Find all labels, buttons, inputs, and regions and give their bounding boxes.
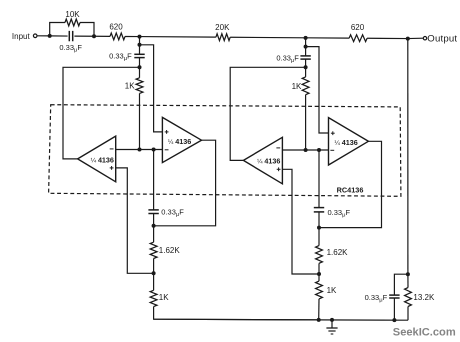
node J junction [304, 148, 308, 152]
wire input terminal to node A [37, 35, 49, 37]
wire node L to resistor R7 [153, 226, 155, 242]
label U1c 1/4 4136 [257, 157, 280, 166]
node C junction [138, 35, 142, 39]
wire U1c inverting input to U1d inverting input [282, 149, 328, 151]
svg-text:1.62K: 1.62K [327, 248, 349, 257]
wire node C down to capacitor C2 [139, 37, 141, 55]
resistor R4 620 [349, 35, 367, 42]
label 1K R6 [292, 82, 302, 91]
label 1.62K R7 [159, 246, 181, 255]
resistor R8 1K [150, 290, 157, 306]
resistor R10 1K [316, 281, 323, 299]
svg-text:1.62K: 1.62K [159, 246, 181, 255]
ground symbol [326, 328, 337, 334]
U1a inverting input mark [110, 148, 114, 150]
label 20K [215, 23, 230, 32]
wire node D to op-amp U1b noninverting input [140, 45, 163, 132]
label Input [12, 32, 31, 41]
wire resistor R5 to node F [139, 93, 141, 149]
node N junction [317, 226, 321, 230]
label 1.62K R9 [327, 248, 349, 257]
label 1K R5 [125, 82, 135, 91]
wire U1d output down to node N [319, 141, 382, 227]
U1c noninverting input mark [277, 167, 281, 171]
wire node G down to capacitor C3 [305, 38, 307, 56]
svg-text:1K: 1K [125, 82, 135, 91]
op-amp U1b [162, 117, 201, 162]
U1d inverting input mark [330, 149, 334, 151]
wire U1a noninverting input feedback [116, 168, 154, 273]
U1b inverting input mark [165, 149, 169, 151]
label 10K [65, 10, 80, 19]
svg-text:13.2K: 13.2K [413, 293, 435, 302]
label 0.33uF C4 [161, 207, 184, 218]
wire U1c noninverting input feedback [282, 169, 319, 274]
node F junction [138, 148, 142, 152]
wire resistor R4 to output node [367, 37, 408, 39]
svg-text:¼ 4136: ¼ 4136 [334, 138, 357, 147]
output terminal [423, 37, 426, 40]
wire U1b output down to node L [154, 140, 216, 226]
wire node B to resistor R2 [94, 35, 110, 37]
wire node C to resistor R3 [140, 36, 216, 39]
resistor R7 1.62K [150, 242, 157, 258]
node G junction [304, 36, 308, 40]
resistor R9 1.62K [316, 246, 323, 264]
U1a noninverting input mark [110, 166, 114, 170]
node S junction [406, 272, 410, 276]
node A junction [48, 34, 52, 38]
svg-text:1K: 1K [159, 293, 169, 302]
U1c inverting input mark [276, 147, 280, 149]
svg-text:¼ 4136: ¼ 4136 [257, 157, 280, 166]
svg-text:¼ 4136: ¼ 4136 [91, 155, 114, 164]
label 620 R4 [351, 23, 365, 32]
wire node M down to capacitor C5 [318, 150, 320, 208]
resistor R1 10K [65, 19, 80, 26]
label 0.33uF C1 [59, 43, 82, 54]
svg-text:Output: Output [427, 34, 457, 45]
wire node P to resistor R8 [153, 273, 155, 290]
label 0.33uF C6 [365, 293, 388, 304]
label U1a 1/4 4136 [91, 155, 114, 164]
resistor R6 1K [302, 77, 309, 95]
label RC4136 [337, 186, 364, 195]
capacitor C5 0.33uF [314, 208, 324, 212]
node E junction [138, 65, 142, 69]
node M junction [317, 148, 321, 152]
label Output [427, 34, 457, 45]
capacitor C6 0.33uF [389, 295, 399, 298]
wire resistor R3 to node G [230, 36, 305, 39]
resistor R5 1K [136, 78, 143, 94]
node L junction [152, 224, 156, 228]
node H junction [304, 65, 308, 69]
wire node H to resistor R6 [305, 67, 307, 77]
wire resistor R7 to node P [153, 259, 155, 274]
wire node K down to capacitor C4 [153, 150, 155, 210]
wire node G2 to op-amp U1d noninverting input [306, 47, 329, 133]
node ground-rail C6 junction [392, 318, 396, 322]
wire resistor R9 to node Q [318, 263, 320, 274]
capacitor C4 0.33uF [148, 210, 158, 214]
wire node S to resistor R11 [407, 274, 409, 287]
capacitor C1 0.33uF input [69, 31, 72, 41]
wire node E to resistor R5 [139, 67, 141, 78]
label 0.33uF C3 [276, 53, 299, 64]
wire node Q to resistor R10 [318, 274, 320, 281]
wire node A to capacitor C1 [50, 35, 68, 37]
svg-text:20K: 20K [215, 23, 230, 32]
resistor R3 20K [216, 34, 230, 41]
node B junction [92, 34, 96, 38]
node ground-rail R10 junction [317, 318, 321, 322]
svg-text:Input: Input [12, 32, 31, 41]
svg-text:620: 620 [351, 23, 365, 32]
svg-text:SeekIC.com: SeekIC.com [393, 327, 456, 339]
ground rail wire [154, 319, 408, 320]
label U1d 1/4 4136 [334, 138, 357, 147]
resistor R2 620 [110, 33, 125, 40]
wire output node down to node S [407, 39, 409, 275]
label 13.2K R11 [413, 293, 435, 302]
wire capacitor C1 to node B [74, 35, 94, 37]
op-amp U1d [329, 118, 369, 165]
wire node E to op-amp U1a output [63, 67, 140, 159]
wire node G to resistor R4 [306, 37, 350, 39]
wire output node to output terminal [408, 37, 423, 39]
svg-text:0.33μF: 0.33μF [276, 53, 299, 64]
label 0.33uF C5 [328, 208, 351, 219]
svg-text:1K: 1K [327, 286, 337, 295]
wire 10K branch down to node B [80, 23, 94, 37]
wire resistor R8 to ground rail [154, 307, 319, 320]
U1b noninverting input mark [165, 130, 169, 134]
svg-text:¼ 4136: ¼ 4136 [168, 137, 191, 146]
svg-text:0.33μF: 0.33μF [59, 43, 82, 54]
wire node S to capacitor C6 [394, 274, 408, 295]
input terminal [33, 34, 37, 38]
op-amp U1a [78, 136, 116, 182]
wire capacitor C6 to ground rail [393, 298, 395, 320]
wire capacitor C4 to node L [153, 214, 155, 226]
svg-text:RC4136: RC4136 [337, 186, 364, 195]
capacitor C3 0.33uF [300, 56, 310, 59]
watermark SeekIC.com [393, 327, 456, 339]
label 1K R8 [159, 293, 169, 302]
wire U1a inverting input to U1b inverting input [116, 149, 163, 151]
wire resistor R6 to node J [305, 95, 307, 150]
svg-text:1K: 1K [292, 82, 302, 91]
wire node H to op-amp U1c output [230, 67, 305, 160]
output node junction [406, 37, 410, 41]
wire capacitor C2 to node E [139, 58, 141, 68]
wire resistor R2 to node C [125, 35, 140, 37]
wire resistor R10 to ground rail [318, 299, 320, 320]
node D junction [138, 43, 142, 47]
label 1K R10 [327, 286, 337, 295]
ground symbol stub [331, 320, 333, 328]
label 0.33uF C2 [109, 52, 132, 63]
op-amp U1c [243, 137, 282, 184]
svg-text:620: 620 [109, 22, 123, 31]
wire capacitor C3 to node H [305, 59, 307, 67]
node ground stub junction [330, 318, 334, 322]
wire node N to resistor R9 [318, 228, 320, 246]
wire capacitor C5 to node N [318, 212, 320, 228]
node Q junction [317, 272, 321, 276]
node G2 junction [304, 45, 308, 49]
capacitor C2 0.33uF [134, 54, 144, 57]
wire resistor R11 to ground rail [407, 307, 409, 321]
resistor R11 13.2K [405, 288, 412, 307]
node K junction [152, 148, 156, 152]
label 620 R2 [109, 22, 123, 31]
svg-text:10K: 10K [65, 10, 80, 19]
IC package RC4136 dashed outline [49, 105, 401, 197]
U1d noninverting input mark [331, 131, 335, 135]
wire node A up to 10K branch [50, 23, 65, 36]
label U1b 1/4 4136 [168, 137, 191, 146]
node P junction [152, 271, 156, 275]
